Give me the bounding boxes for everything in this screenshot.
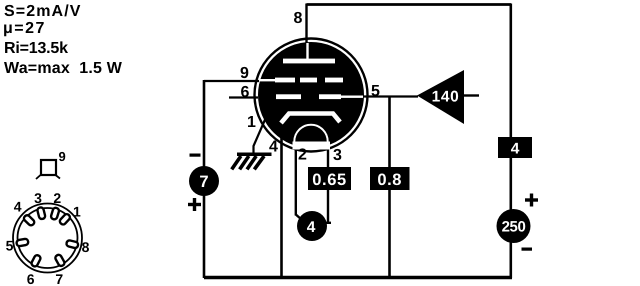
svg-text:5: 5 — [6, 238, 14, 254]
svg-text:3: 3 — [34, 190, 42, 206]
svg-text:0.65: 0.65 — [312, 171, 347, 189]
svg-text:5: 5 — [371, 83, 380, 100]
svg-text:8: 8 — [82, 239, 90, 255]
svg-text:9: 9 — [59, 149, 66, 164]
svg-text:7: 7 — [199, 173, 208, 191]
svg-text:0.8: 0.8 — [377, 171, 402, 189]
svg-text:2: 2 — [53, 190, 61, 206]
svg-text:Wa=max 1.5 W: Wa=max 1.5 W — [4, 60, 123, 77]
svg-text:4: 4 — [269, 139, 278, 156]
svg-text:140: 140 — [432, 89, 460, 106]
svg-text:7: 7 — [55, 271, 63, 286]
svg-text:4: 4 — [14, 199, 22, 215]
svg-text:S=2mA/V: S=2mA/V — [4, 3, 82, 20]
svg-text:4: 4 — [511, 141, 520, 158]
svg-text:3: 3 — [333, 147, 342, 164]
svg-text:9: 9 — [240, 65, 249, 82]
svg-text:4: 4 — [307, 219, 316, 236]
svg-text:Ri=13.5k: Ri=13.5k — [4, 40, 68, 57]
svg-text:8: 8 — [294, 10, 303, 27]
svg-text:μ=27: μ=27 — [3, 20, 46, 37]
svg-text:2: 2 — [298, 147, 307, 164]
svg-text:6: 6 — [241, 84, 250, 101]
svg-text:1: 1 — [247, 114, 256, 131]
svg-text:1: 1 — [73, 204, 81, 220]
svg-text:6: 6 — [27, 271, 35, 286]
svg-text:250: 250 — [502, 219, 526, 236]
